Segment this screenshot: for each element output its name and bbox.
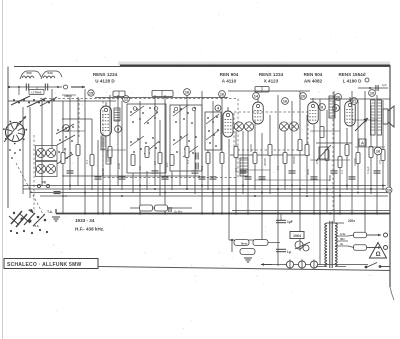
pin node 16	[184, 89, 191, 96]
resistor box Netz2	[253, 240, 268, 246]
wire AF coupling	[316, 142, 352, 144]
svg-text:0,1μF: 0,1μF	[366, 166, 370, 173]
pin node 10	[369, 90, 376, 97]
arrow to terminal 1	[367, 234, 381, 237]
wire PSU bottom heater line	[262, 264, 368, 266]
vertical wire at x=236	[235, 131, 237, 213]
svg-text:10: 10	[387, 188, 391, 192]
vertical wire at x=327	[326, 110, 328, 213]
vertical wire at x=202	[201, 91, 203, 213]
resistor box Gr1	[140, 205, 153, 211]
vertical wire at x=229	[228, 139, 230, 240]
wave band switch S1 contact row	[11, 96, 57, 107]
rectifier tube V6	[295, 241, 310, 251]
svg-text:Netz: Netz	[241, 241, 248, 245]
trimmer box C5	[113, 91, 125, 97]
tube V5 RENS 1554d (output)	[345, 97, 356, 126]
tone control potentiometer P2	[316, 145, 331, 161]
scan left page edge shadow	[2, 0, 4, 339]
IF transformer T2 coils	[279, 122, 298, 131]
svg-text:16: 16	[185, 90, 189, 94]
band filter can 1 outline	[127, 104, 166, 173]
vertical wire at x=285	[284, 131, 286, 190]
vertical wire at x=320	[319, 99, 321, 265]
vertical wire at x=122	[121, 101, 123, 190]
switch lever arrow through S4	[4, 116, 26, 142]
dashed shield line top left	[40, 98, 103, 100]
coil L1b winding	[43, 76, 55, 78]
wire transformer top tap	[326, 222, 344, 224]
vertical wire at x=334	[333, 91, 335, 223]
coupling box L1TRAS	[29, 90, 44, 95]
resistor R3	[90, 155, 94, 166]
wire osc grid	[62, 130, 85, 132]
vertical wire at x=208	[207, 150, 209, 190]
rotary wave-change switch S4	[3, 121, 27, 145]
mains switch S3	[365, 263, 390, 269]
resistor R4	[108, 147, 112, 158]
resistor R8	[170, 155, 174, 166]
svg-text:1μF: 1μF	[287, 220, 293, 224]
wire to speaker	[352, 119, 378, 121]
svg-text:20: 20	[301, 94, 305, 98]
supply rail wire 2	[23, 188, 386, 190]
pin node 21	[351, 98, 358, 105]
resistor R5	[131, 155, 135, 166]
svg-text:1μF: 1μF	[382, 83, 387, 87]
vertical wire at x=180	[179, 105, 181, 186]
wire grid row	[62, 100, 116, 102]
wire V4 anode	[310, 130, 340, 132]
pin node 14	[253, 93, 260, 100]
resistor R1	[61, 153, 65, 164]
svg-text:50000: 50000	[101, 168, 105, 176]
svg-text:40v: 40v	[340, 237, 345, 241]
svg-text:2MΩ: 2MΩ	[306, 169, 310, 175]
vertical wire at x=103	[102, 138, 104, 213]
vertical wire at x=98	[97, 140, 99, 213]
dashed shield line output stage	[332, 92, 334, 210]
svg-text:16: 16	[376, 149, 380, 153]
capacitor C24	[199, 177, 206, 179]
wire to rectifier	[268, 242, 280, 244]
capacitor C30 top right	[376, 85, 378, 91]
ground bus junction dots	[84, 212, 378, 214]
resistor R2	[76, 145, 80, 156]
arrow to mains left	[261, 263, 272, 266]
pin node 3	[333, 105, 340, 112]
fuse F3	[310, 260, 317, 270]
band switch terminal dots	[10, 229, 48, 234]
ground symbol at left end of ground bus	[55, 209, 57, 214]
trimmer cap circles on can1	[133, 107, 158, 111]
vertical wire at x=133	[132, 173, 134, 193]
svg-text:Gr.Mm: Gr.Mm	[174, 210, 183, 214]
svg-text:9: 9	[321, 105, 323, 109]
svg-text:4v: 4v	[340, 242, 344, 246]
vertical wire at x=358	[357, 100, 359, 190]
HT rail above ground bus	[232, 210, 390, 212]
antenna input wire	[9, 86, 62, 88]
antenna terminal node	[64, 85, 68, 89]
capacitor stack C20a	[196, 153, 198, 160]
capacitor C20	[311, 177, 318, 179]
capacitor C17	[240, 171, 247, 173]
pin node 16 below speaker	[374, 147, 382, 155]
output transformer T2out (two hatched bars)	[371, 100, 382, 135]
capacitor C8 at PK	[54, 191, 61, 193]
schematic right border line	[389, 65, 391, 287]
pin node 16 at T2	[282, 98, 289, 105]
filter can 2 switch contacts	[173, 105, 198, 157]
svg-text:100m: 100m	[64, 94, 72, 98]
capacitor C19	[289, 171, 296, 173]
resistor R15	[283, 153, 287, 164]
vertical wire at x=352	[351, 91, 353, 213]
wire PSU top link	[229, 239, 262, 241]
wire from band switch	[8, 100, 62, 102]
svg-text:4,4v: 4,4v	[340, 232, 346, 236]
junction PSU left	[231, 239, 233, 241]
oscillator can contacts	[206, 114, 219, 147]
svg-text:10000: 10000	[353, 158, 357, 166]
svg-text:10: 10	[370, 91, 374, 95]
trimmer box divider	[118, 91, 120, 97]
warning triangle symbol	[370, 243, 387, 259]
vertical wire at x=42	[41, 101, 43, 186]
ground symbol G2 under Netz box	[244, 258, 252, 262]
svg-text:H.F.- 438 kHz.: H.F.- 438 kHz.	[75, 227, 104, 232]
bottom page border line	[98, 267, 390, 271]
wire detector output	[230, 154, 310, 156]
resistor R7	[158, 153, 162, 164]
filter capacitor C40 plates	[276, 220, 286, 222]
transformer T3 core	[329, 221, 331, 268]
resistor R19	[356, 153, 360, 164]
svg-text:X 4123: X 4123	[264, 79, 279, 84]
pin node 16 above V2	[219, 91, 226, 98]
svg-text:0,1: 0,1	[276, 166, 280, 170]
wire PSU left drop	[231, 240, 233, 252]
title box SCHALECO ALLFUNK 5MW	[4, 259, 98, 269]
pin node 20	[300, 93, 307, 100]
svg-text:Lμ: Lμ	[287, 250, 291, 254]
vertical wire at x=118	[117, 95, 119, 186]
IF transformer T1 coils	[234, 122, 253, 131]
resistor R9	[185, 147, 189, 158]
hatched coupling coil at V1	[114, 108, 120, 121]
coil L1a winding	[22, 76, 34, 78]
schematic top border line	[14, 66, 390, 68]
loudspeaker LS	[383, 106, 394, 127]
trimmer box C7 above V3	[255, 87, 269, 93]
vertical wire at x=52	[51, 89, 53, 148]
output terminal 2	[384, 246, 388, 250]
junction at left border	[8, 86, 10, 88]
svg-text:A 4110: A 4110	[222, 79, 237, 84]
vertical wire at x=140	[139, 101, 141, 213]
feedback potentiometer P3	[355, 118, 368, 131]
vertical wire at x=300	[299, 91, 301, 251]
tube V3 RENS 1234 (IF amp)	[253, 98, 264, 124]
tube V1 RENS 1234 (mixer)	[101, 102, 112, 136]
pin node 4 at V2	[215, 105, 221, 111]
wire grid stub	[62, 94, 76, 96]
vertical wire at x=92	[91, 119, 93, 190]
svg-text:RENS 1234: RENS 1234	[93, 72, 118, 77]
vertical wire at x=243	[242, 131, 244, 194]
dashed shield left edge down to bus	[33, 135, 35, 212]
svg-text:30000: 30000	[263, 158, 267, 166]
voltage dropper resistor R30	[354, 232, 367, 238]
dashed shield box around IF transformer	[234, 112, 308, 150]
hatched resistor 2 near V1	[106, 151, 111, 164]
vertical wire at x=383	[382, 100, 384, 190]
right border bottom curve	[390, 287, 394, 300]
vertical wire at x=248	[247, 131, 249, 213]
wire detector lower	[240, 169, 270, 171]
junction dots on supply rails	[69, 185, 384, 198]
resistor R6	[145, 147, 149, 158]
svg-text:RENS 1554d: RENS 1554d	[338, 72, 365, 77]
wire can1 feed	[100, 149, 126, 151]
ground symbol G1	[52, 217, 60, 221]
svg-text:003: 003	[26, 71, 31, 75]
svg-text:300: 300	[165, 162, 169, 167]
resistor R14	[268, 145, 272, 156]
junction top right	[369, 87, 371, 89]
vertical wire at x=63	[62, 101, 64, 213]
resistor R22	[298, 140, 302, 151]
svg-text:AN 4082: AN 4082	[304, 79, 323, 84]
pin node 8 under V1	[115, 126, 122, 133]
wire secondary tap 2	[336, 240, 348, 242]
svg-text:L 4190 D: L 4190 D	[343, 79, 362, 84]
svg-text:0,5: 0,5	[138, 166, 142, 170]
voltage dropper resistor R31	[354, 245, 367, 251]
pin node 10 right edge	[386, 187, 392, 193]
vertical wire at x=278	[277, 95, 279, 266]
capacitor C2 in antenna lead	[45, 84, 47, 91]
capacitor C16	[210, 177, 217, 179]
svg-text:REN 904: REN 904	[220, 72, 239, 77]
svg-text:SCHALECO · ALLFUNK 5MW: SCHALECO · ALLFUNK 5MW	[7, 262, 82, 268]
capacitor C18	[259, 177, 266, 179]
vertical wire at x=85	[84, 89, 86, 213]
oscillator coil pair L5	[36, 164, 55, 173]
vertical wire at x=371	[370, 105, 372, 194]
rectifier box 1064	[290, 232, 304, 239]
resistor box Netz3	[240, 249, 255, 255]
HF choke Dr1 (hatched)	[329, 96, 335, 118]
capacitor C13	[152, 171, 159, 173]
vertical wire at x=160	[159, 120, 161, 196]
svg-text:15: 15	[89, 91, 93, 95]
svg-text:12: 12	[124, 97, 128, 101]
vertical wire at x=172	[171, 171, 173, 190]
vertical wire at x=388	[387, 110, 389, 186]
filter can 1 switch contacts	[130, 106, 160, 154]
capacitor C1 in antenna lead	[26, 84, 28, 91]
dashed shield box around band filter	[103, 99, 238, 178]
svg-text:21: 21	[352, 99, 356, 103]
wire AVC return	[62, 175, 200, 177]
band selector switch S2 cluster	[9, 209, 46, 227]
capacitor C14	[162, 177, 169, 179]
mains transformer T3 secondary winding	[335, 223, 337, 267]
wire bus to C40	[280, 214, 282, 221]
vertical wire at x=262	[261, 133, 263, 240]
svg-text:0,1: 0,1	[340, 170, 344, 174]
output terminal 1	[384, 233, 388, 237]
pin node 12	[123, 96, 130, 103]
svg-text:U 4128 D: U 4128 D	[95, 79, 115, 84]
vertical wire at x=165	[164, 95, 166, 213]
svg-text:L1TRAS: L1TRAS	[31, 91, 41, 95]
band filter can 2 outline	[170, 105, 202, 171]
terminal circle top right	[365, 78, 369, 82]
junction antenna wire 2	[57, 86, 59, 88]
supply rail wire 4	[40, 195, 388, 197]
svg-text:PK: PK	[42, 181, 47, 185]
hatched resistor near V1	[101, 136, 106, 149]
vertical wire at x=147	[146, 171, 148, 190]
wire to L1TRAS box	[36, 87, 38, 90]
vertical wire at x=255	[254, 121, 256, 190]
vertical wire at x=23	[22, 107, 24, 194]
resistor R10	[206, 153, 210, 164]
oscillator coil can L5 outline	[36, 162, 58, 177]
capacitor C22	[349, 177, 356, 179]
capacitor C11	[95, 177, 102, 179]
svg-text:T.A.: T.A.	[47, 210, 53, 214]
vertical wire at x=340	[339, 100, 341, 213]
vertical wire at x=70	[69, 97, 71, 190]
svg-text:16: 16	[220, 92, 224, 96]
svg-text:040: 040	[47, 71, 52, 75]
trimmer box C7 divider	[261, 87, 263, 93]
antenna coil L1b arc	[41, 71, 62, 79]
capacitor C12	[119, 177, 126, 179]
capacitor C15	[192, 171, 199, 173]
oscillator band switch contacts	[56, 124, 75, 164]
wire tap to R30	[348, 235, 354, 236]
boxed label A	[359, 139, 366, 146]
vertical wire at x=292	[291, 101, 293, 213]
svg-text:100: 100	[200, 165, 204, 170]
fuse F1	[286, 260, 293, 270]
ground bus (thick)	[56, 213, 390, 215]
oscillator coil can outline	[205, 112, 221, 150]
svg-text:16: 16	[283, 99, 287, 103]
svg-text:50000: 50000	[292, 156, 296, 164]
wire tap to R31	[348, 246, 354, 248]
resistor R20	[369, 147, 373, 158]
resistor box Netz1	[234, 240, 249, 246]
svg-text:0,1: 0,1	[234, 168, 238, 172]
wire top right supply	[358, 87, 388, 89]
svg-text:0,2: 0,2	[63, 150, 67, 154]
junction antenna wire	[18, 86, 20, 88]
wire to Gr boxes	[130, 207, 192, 209]
oscillator coil pair L4	[36, 148, 55, 157]
resistor R12	[234, 147, 238, 158]
resistor R21	[381, 150, 385, 161]
pin node 15 left of can1	[88, 90, 94, 96]
PK terminal circles	[37, 181, 49, 188]
vertical wire at x=347	[346, 128, 348, 190]
svg-text:220v: 220v	[348, 219, 355, 223]
schematic top border line (dark right part)	[120, 64, 390, 66]
vertical wire at x=270	[269, 115, 271, 194]
schematic left border line	[7, 67, 9, 209]
capacitor C25	[245, 177, 252, 179]
vertical wire at x=377	[376, 95, 378, 213]
padder box C6	[152, 91, 173, 97]
vertical wire at x=195	[194, 110, 196, 194]
vertical wire at x=314	[313, 125, 315, 213]
arrow to terminal 2	[367, 246, 381, 249]
resistor R16	[305, 145, 309, 156]
wire to output stage	[310, 98, 390, 100]
wire AF bus lower	[255, 179, 330, 181]
resistor R13	[253, 153, 257, 164]
antenna arrow to grid wire	[71, 86, 85, 89]
svg-text:0,5: 0,5	[153, 161, 157, 165]
dashed shield line vertical left	[78, 99, 80, 138]
wire primary bottom	[316, 266, 326, 268]
supply rail wire 1	[23, 185, 386, 187]
supply rail wire 3	[30, 192, 388, 194]
vertical wire at x=187	[186, 95, 188, 190]
wire AF line	[310, 159, 350, 161]
vertical wire at x=155	[154, 95, 156, 186]
tube V4 REN 904 (detector)	[308, 98, 319, 124]
filter capacitor C41 plates	[276, 249, 286, 251]
svg-text:0,1: 0,1	[85, 160, 89, 164]
capacitor C21	[331, 171, 338, 173]
wire output coupling	[355, 146, 385, 148]
svg-text:50000: 50000	[249, 144, 253, 152]
pin node 9	[319, 104, 326, 111]
wire V1 grid	[62, 118, 92, 120]
svg-text:A: A	[361, 141, 364, 146]
IF output coil L6	[240, 158, 248, 176]
wire secondary bottom	[336, 266, 346, 268]
capacitor C23	[374, 171, 381, 173]
wire anode V2 to IF	[228, 90, 310, 92]
svg-text:Ω: Ω	[376, 251, 381, 258]
svg-text:1933 - 34: 1933 - 34	[75, 218, 95, 223]
svg-text:0,1: 0,1	[186, 160, 190, 164]
vertical wire at x=78	[77, 97, 79, 186]
capacitor stack C20b	[196, 163, 198, 170]
dashed mechanical link to tuning gang	[16, 163, 44, 216]
top page shadow band	[118, 62, 390, 66]
vertical wire at x=365	[364, 91, 366, 235]
svg-text:71A: 71A	[33, 224, 39, 228]
vertical wire at x=213	[212, 101, 214, 213]
tube V2 REN 904 (oscillator)	[223, 107, 233, 137]
resistor R24	[338, 157, 342, 168]
resistor R23	[320, 127, 324, 138]
socket pin node 8	[63, 125, 70, 132]
capacitor C10	[67, 171, 74, 173]
trimmer cap circles on can2	[174, 107, 196, 111]
vertical wire at x=110	[109, 95, 111, 213]
svg-text:RENS 1234: RENS 1234	[259, 72, 284, 77]
mains transformer T3 primary winding	[325, 223, 327, 267]
